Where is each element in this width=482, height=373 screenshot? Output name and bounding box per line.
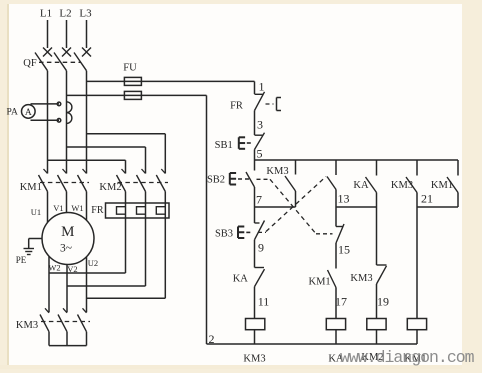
svg-text:U2: U2 bbox=[88, 258, 98, 268]
svg-text:FU: FU bbox=[123, 63, 137, 74]
svg-text:SB1: SB1 bbox=[215, 140, 233, 151]
svg-text:11: 11 bbox=[258, 295, 270, 309]
svg-text:V2: V2 bbox=[67, 264, 77, 274]
svg-text:1: 1 bbox=[259, 80, 265, 94]
svg-text:KM3: KM3 bbox=[266, 166, 288, 177]
svg-text:M: M bbox=[61, 224, 74, 240]
svg-text:3: 3 bbox=[257, 118, 263, 132]
svg-text:7: 7 bbox=[256, 193, 262, 207]
svg-text:21: 21 bbox=[421, 192, 433, 206]
svg-text:KM2: KM2 bbox=[99, 182, 121, 193]
svg-text:KM3: KM3 bbox=[243, 354, 265, 365]
svg-text:2: 2 bbox=[209, 332, 215, 346]
svg-text:9: 9 bbox=[258, 241, 264, 255]
svg-text:SB2: SB2 bbox=[207, 175, 225, 186]
svg-text:KM3: KM3 bbox=[350, 273, 372, 284]
svg-text:L2: L2 bbox=[59, 8, 71, 20]
svg-text:KM1: KM1 bbox=[431, 180, 453, 191]
svg-text:L3: L3 bbox=[79, 8, 92, 20]
svg-text:3~: 3~ bbox=[60, 243, 72, 255]
svg-text:U1: U1 bbox=[31, 207, 41, 217]
svg-text:13: 13 bbox=[338, 192, 350, 206]
svg-text:SB3: SB3 bbox=[215, 229, 233, 240]
svg-text:L1: L1 bbox=[40, 8, 52, 20]
svg-text:KM1: KM1 bbox=[20, 182, 42, 193]
svg-text:17: 17 bbox=[335, 295, 347, 309]
svg-text:A: A bbox=[25, 108, 32, 118]
svg-text:KM1: KM1 bbox=[309, 276, 331, 287]
svg-text:FR: FR bbox=[91, 205, 104, 216]
svg-text:V1: V1 bbox=[53, 203, 63, 213]
svg-text:FR: FR bbox=[230, 101, 243, 112]
svg-text:www.diangon.com: www.diangon.com bbox=[340, 348, 475, 367]
svg-text:KM3: KM3 bbox=[391, 180, 413, 191]
svg-text:PE: PE bbox=[16, 255, 27, 265]
svg-text:KA: KA bbox=[353, 180, 369, 191]
svg-text:5: 5 bbox=[257, 147, 263, 161]
svg-text:W2: W2 bbox=[48, 263, 60, 273]
svg-text:PA: PA bbox=[7, 108, 18, 118]
svg-text:W1: W1 bbox=[71, 203, 83, 213]
svg-text:QF: QF bbox=[23, 58, 37, 69]
svg-text:KA: KA bbox=[233, 273, 249, 284]
svg-text:KM3: KM3 bbox=[16, 320, 38, 331]
svg-text:19: 19 bbox=[377, 295, 389, 309]
svg-text:15: 15 bbox=[338, 243, 350, 257]
